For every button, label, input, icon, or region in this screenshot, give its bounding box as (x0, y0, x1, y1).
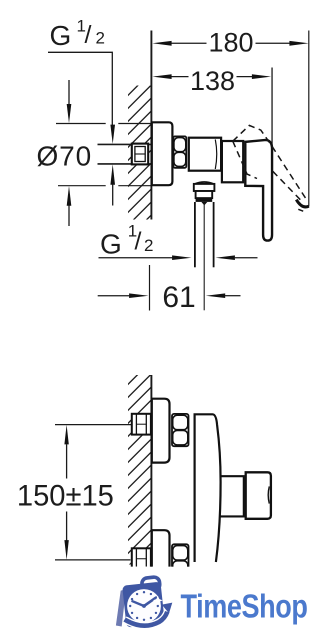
supply hex nut (top view) (132, 144, 148, 165)
svg-text:61: 61 (162, 281, 195, 314)
handle neck (bottom view) (219, 476, 244, 516)
svg-text:2: 2 (144, 236, 153, 255)
lower rosette (bottom view) (152, 530, 170, 570)
upper rosette (bottom view) (152, 399, 170, 463)
mixer body (bottom view) (195, 414, 221, 562)
lower union nut (bottom view) (172, 544, 189, 576)
logo clock face (127, 589, 161, 623)
outlet under-body arc (195, 182, 214, 184)
svg-text:/: / (85, 21, 92, 49)
svg-text:TimeShop: TimeShop (181, 588, 308, 625)
handle tip hook (296, 200, 309, 207)
logo swoosh arrow (125, 612, 168, 626)
outlet centerline (203, 203, 205, 310)
pipe right indicator arrow (216, 255, 235, 260)
logo bag (122, 582, 165, 628)
svg-text:138: 138 (190, 66, 235, 96)
svg-text:/: / (135, 228, 142, 256)
svg-text:150±15: 150±15 (17, 480, 114, 513)
extension line 138 right (271, 68, 273, 151)
dimension Ø70 outside arrows (68, 80, 70, 105)
lever handle solid (top view) (245, 140, 272, 241)
mixer body (top view) (189, 138, 221, 171)
supply pipe (top view) (98, 143, 152, 145)
leader of outlet G 1/2 label (99, 257, 173, 259)
svg-text:2: 2 (96, 29, 105, 48)
svg-text:180: 180 (208, 28, 253, 58)
outlet flange (194, 184, 215, 191)
logo back stripe (116, 589, 126, 626)
upper hex nut (bottom view) (132, 414, 151, 435)
logo sparkle star (153, 596, 163, 606)
svg-text:Ø70: Ø70 (37, 141, 93, 172)
outlet pipe (194, 202, 196, 267)
logo clock ticks (129, 591, 159, 621)
cartridge cap (top view) (222, 141, 243, 182)
wall hatching (bottom view) (126, 360, 152, 581)
wall line (top view) (150, 31, 152, 220)
logo clock hands (144, 598, 156, 606)
extension line 180 right (308, 31, 310, 207)
upper union nut (bottom view) (172, 414, 189, 446)
wall hatching (top view) (126, 71, 152, 240)
dimension Ø70 extension lines (56, 123, 151, 125)
outlet step (196, 191, 213, 198)
leader of G 1/2 label (48, 52, 112, 125)
up leader arrow at pipe bottom (110, 164, 115, 184)
logo bag handle (141, 577, 160, 592)
union nut (top view) (173, 136, 186, 167)
wall line (bottom view) (150, 375, 152, 565)
handle grip (bottom view) (246, 472, 271, 519)
dimension 180 (171, 42, 291, 44)
dimension 61 (98, 295, 130, 297)
lower hex nut (bottom view) (132, 548, 151, 569)
svg-text:G: G (50, 20, 72, 51)
svg-text:G: G (100, 229, 122, 260)
wall rosette (top view) (152, 122, 173, 185)
dimension 138 (171, 76, 254, 78)
dimension 150±15 (55, 424, 132, 426)
lever handle swung position (dashed) (233, 125, 306, 202)
outlet seal band (196, 198, 213, 202)
